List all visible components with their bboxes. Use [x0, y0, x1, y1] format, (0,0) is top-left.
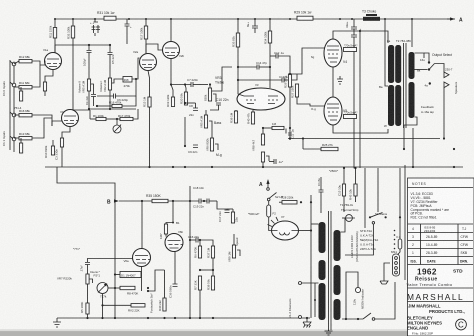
filter cap 32u+ (near V3 supply)	[254, 19, 256, 26]
wires selector to T1	[345, 224, 373, 255]
wire V5 anode to OT bottom	[333, 125, 388, 133]
wire V2b cathode	[171, 59, 172, 85]
wire speaker returns	[412, 128, 414, 167]
resistor R37 1M	[211, 246, 214, 258]
resistor R30 10k 1w	[104, 16, 116, 20]
wire V6a grid network	[141, 267, 143, 292]
cap C10 22n	[216, 103, 221, 105]
wire V1a anode to coupling	[55, 45, 110, 53]
resistor R7 33K	[198, 276, 201, 290]
wire: input ground bus	[9, 60, 11, 150]
ground mains mid	[303, 318, 311, 328]
revision table	[408, 223, 474, 225]
ground symbol left	[53, 318, 61, 327]
pot VR9 1M speed	[232, 245, 235, 258]
ground under S1	[380, 279, 388, 284]
T2 secondary winding bars	[409, 52, 415, 79]
resistor R15 1M input load	[20, 143, 23, 153]
jack J4	[12, 137, 16, 141]
wire V1b anode link	[89, 110, 91, 119]
ground cathode	[337, 76, 343, 84]
wire tremolo ground rail	[57, 317, 310, 319]
wire: input bus	[13, 62, 15, 152]
wire screen supply drop	[354, 37, 356, 184]
wire feedback lower with R25	[303, 148, 321, 150]
pot VR1 circle	[113, 125, 121, 133]
filter caps 32u+32u output supply	[353, 19, 355, 27]
wire bias feed	[57, 167, 115, 318]
T2 primary winding bars	[388, 45, 394, 83]
resistor R8 470K	[120, 286, 135, 289]
switch mains link	[363, 313, 371, 319]
cap .27u tremolo out	[88, 259, 133, 263]
wire preamp ground rail	[45, 166, 463, 168]
diode D1 1N4007	[120, 272, 141, 278]
wire: main HT rail	[55, 18, 455, 20]
T1 core	[328, 211, 330, 330]
resistor R30 2k2	[163, 298, 166, 311]
svg-text:F.No: 1962 2SP: F.No: 1962 2SP	[412, 332, 433, 336]
resistor R29 10k 1w	[297, 16, 313, 20]
jack J1	[12, 62, 16, 66]
cap C2 .1u*	[274, 159, 276, 164]
wire: screen node drop	[411, 19, 413, 47]
wire mains bottom	[342, 318, 363, 320]
pot VR6 Middle	[210, 138, 213, 151]
resistor R32 100k (V1b anode)	[72, 19, 74, 26]
T1 secondary bars	[319, 222, 326, 253]
cathode V1b resistor R3 820k + cap C3 330n	[62, 127, 70, 139]
title block frame	[408, 178, 474, 336]
wire OT secondary ground	[403, 125, 405, 149]
resistor R17 100k (V2a plate)	[145, 19, 147, 26]
wire secondary taps	[415, 53, 425, 58]
heater wires	[299, 282, 302, 285]
node A arrowhead top right	[450, 17, 455, 20]
resistor R6 470K	[198, 246, 201, 258]
cap 560n	[173, 284, 178, 287]
resistor R41 4k7	[261, 134, 264, 145]
neon lamp 110v	[355, 287, 360, 292]
T2 core	[403, 43, 405, 128]
pentode V4	[324, 39, 342, 67]
jack J3	[12, 113, 16, 117]
resistor R38 56k	[211, 276, 214, 290]
wire: HT to OT centre tap	[385, 19, 388, 86]
wire mixer bus	[89, 108, 136, 110]
cap C11 .1u	[285, 129, 287, 136]
cap C8 22n	[193, 108, 198, 111]
wire V6a anode up	[141, 201, 143, 249]
resistor R18 470k	[123, 77, 132, 83]
filter cap 8u screen	[126, 19, 128, 24]
wire V4 anode to OT top	[333, 31, 388, 43]
pot VR5 Bass	[204, 115, 207, 128]
wire feedback upper	[288, 138, 440, 140]
wire V2b plate	[170, 19, 172, 41]
wire V2a anode to V2b grid	[146, 44, 163, 54]
resistor R11 150k (V1a anode)	[54, 19, 56, 28]
bottom scan shadow	[0, 331, 474, 336]
ground T1 core	[325, 330, 333, 335]
cap C17 22u	[217, 201, 227, 209]
wire V4 grid	[290, 48, 325, 74]
cap C2 100p	[88, 45, 90, 50]
wire right edge	[404, 165, 406, 280]
resistor R38 1M grid	[234, 111, 237, 123]
pot VR8 presence	[261, 152, 264, 162]
wire V2a cathode down	[148, 71, 150, 98]
jack J2	[12, 83, 16, 87]
resistor R34 100k	[269, 19, 271, 31]
filter caps 8u+8u near V1 supply	[94, 19, 96, 22]
resistor R14 1M	[20, 91, 23, 101]
resistor 1M7 coupling	[164, 224, 167, 234]
junction dots on rail	[54, 18, 56, 20]
resistor R42 40k	[231, 212, 234, 223]
cathode parts V1a: resistor R2 820 + cap	[45, 70, 53, 83]
jack FS1	[97, 283, 108, 294]
wires T1 primary right	[341, 218, 356, 232]
thermal strip symbol	[346, 215, 353, 222]
wire tone stack output to V3	[212, 67, 232, 91]
wire mains vertical	[310, 195, 312, 318]
resistor RV2 22K	[131, 304, 145, 307]
wire V1b anode out	[73, 109, 90, 111]
resistor R40 470 tail	[251, 112, 254, 124]
wire drop x127	[126, 26, 128, 44]
resistor R26 220k	[289, 73, 291, 75]
cap C9 22n	[193, 145, 198, 148]
cap C5 22n	[109, 45, 111, 52]
cap C6 220p	[97, 95, 114, 97]
pentode V5	[324, 97, 342, 125]
resistor R27 220k	[295, 84, 298, 97]
wire cathodes link	[332, 67, 334, 97]
wire V2b out to tone stack	[184, 84, 186, 86]
resistor R15 1M	[148, 97, 151, 107]
node B1	[172, 222, 174, 224]
T1 primary bars	[334, 230, 341, 261]
resistor R20 56k	[184, 92, 187, 105]
copyright symbol	[456, 319, 467, 330]
wire supply drop	[189, 186, 191, 318]
resistor R19 120k	[171, 97, 174, 107]
wire heater drop	[359, 31, 361, 168]
wire feedback	[424, 53, 429, 62]
wire V5 grid	[302, 104, 325, 106]
resistor R33 82k	[237, 19, 239, 33]
cap C4 22n	[91, 95, 96, 97]
resistor R5 100K	[86, 303, 89, 314]
switch S2 HT	[267, 188, 270, 191]
wires T1 secondary left	[311, 223, 319, 225]
